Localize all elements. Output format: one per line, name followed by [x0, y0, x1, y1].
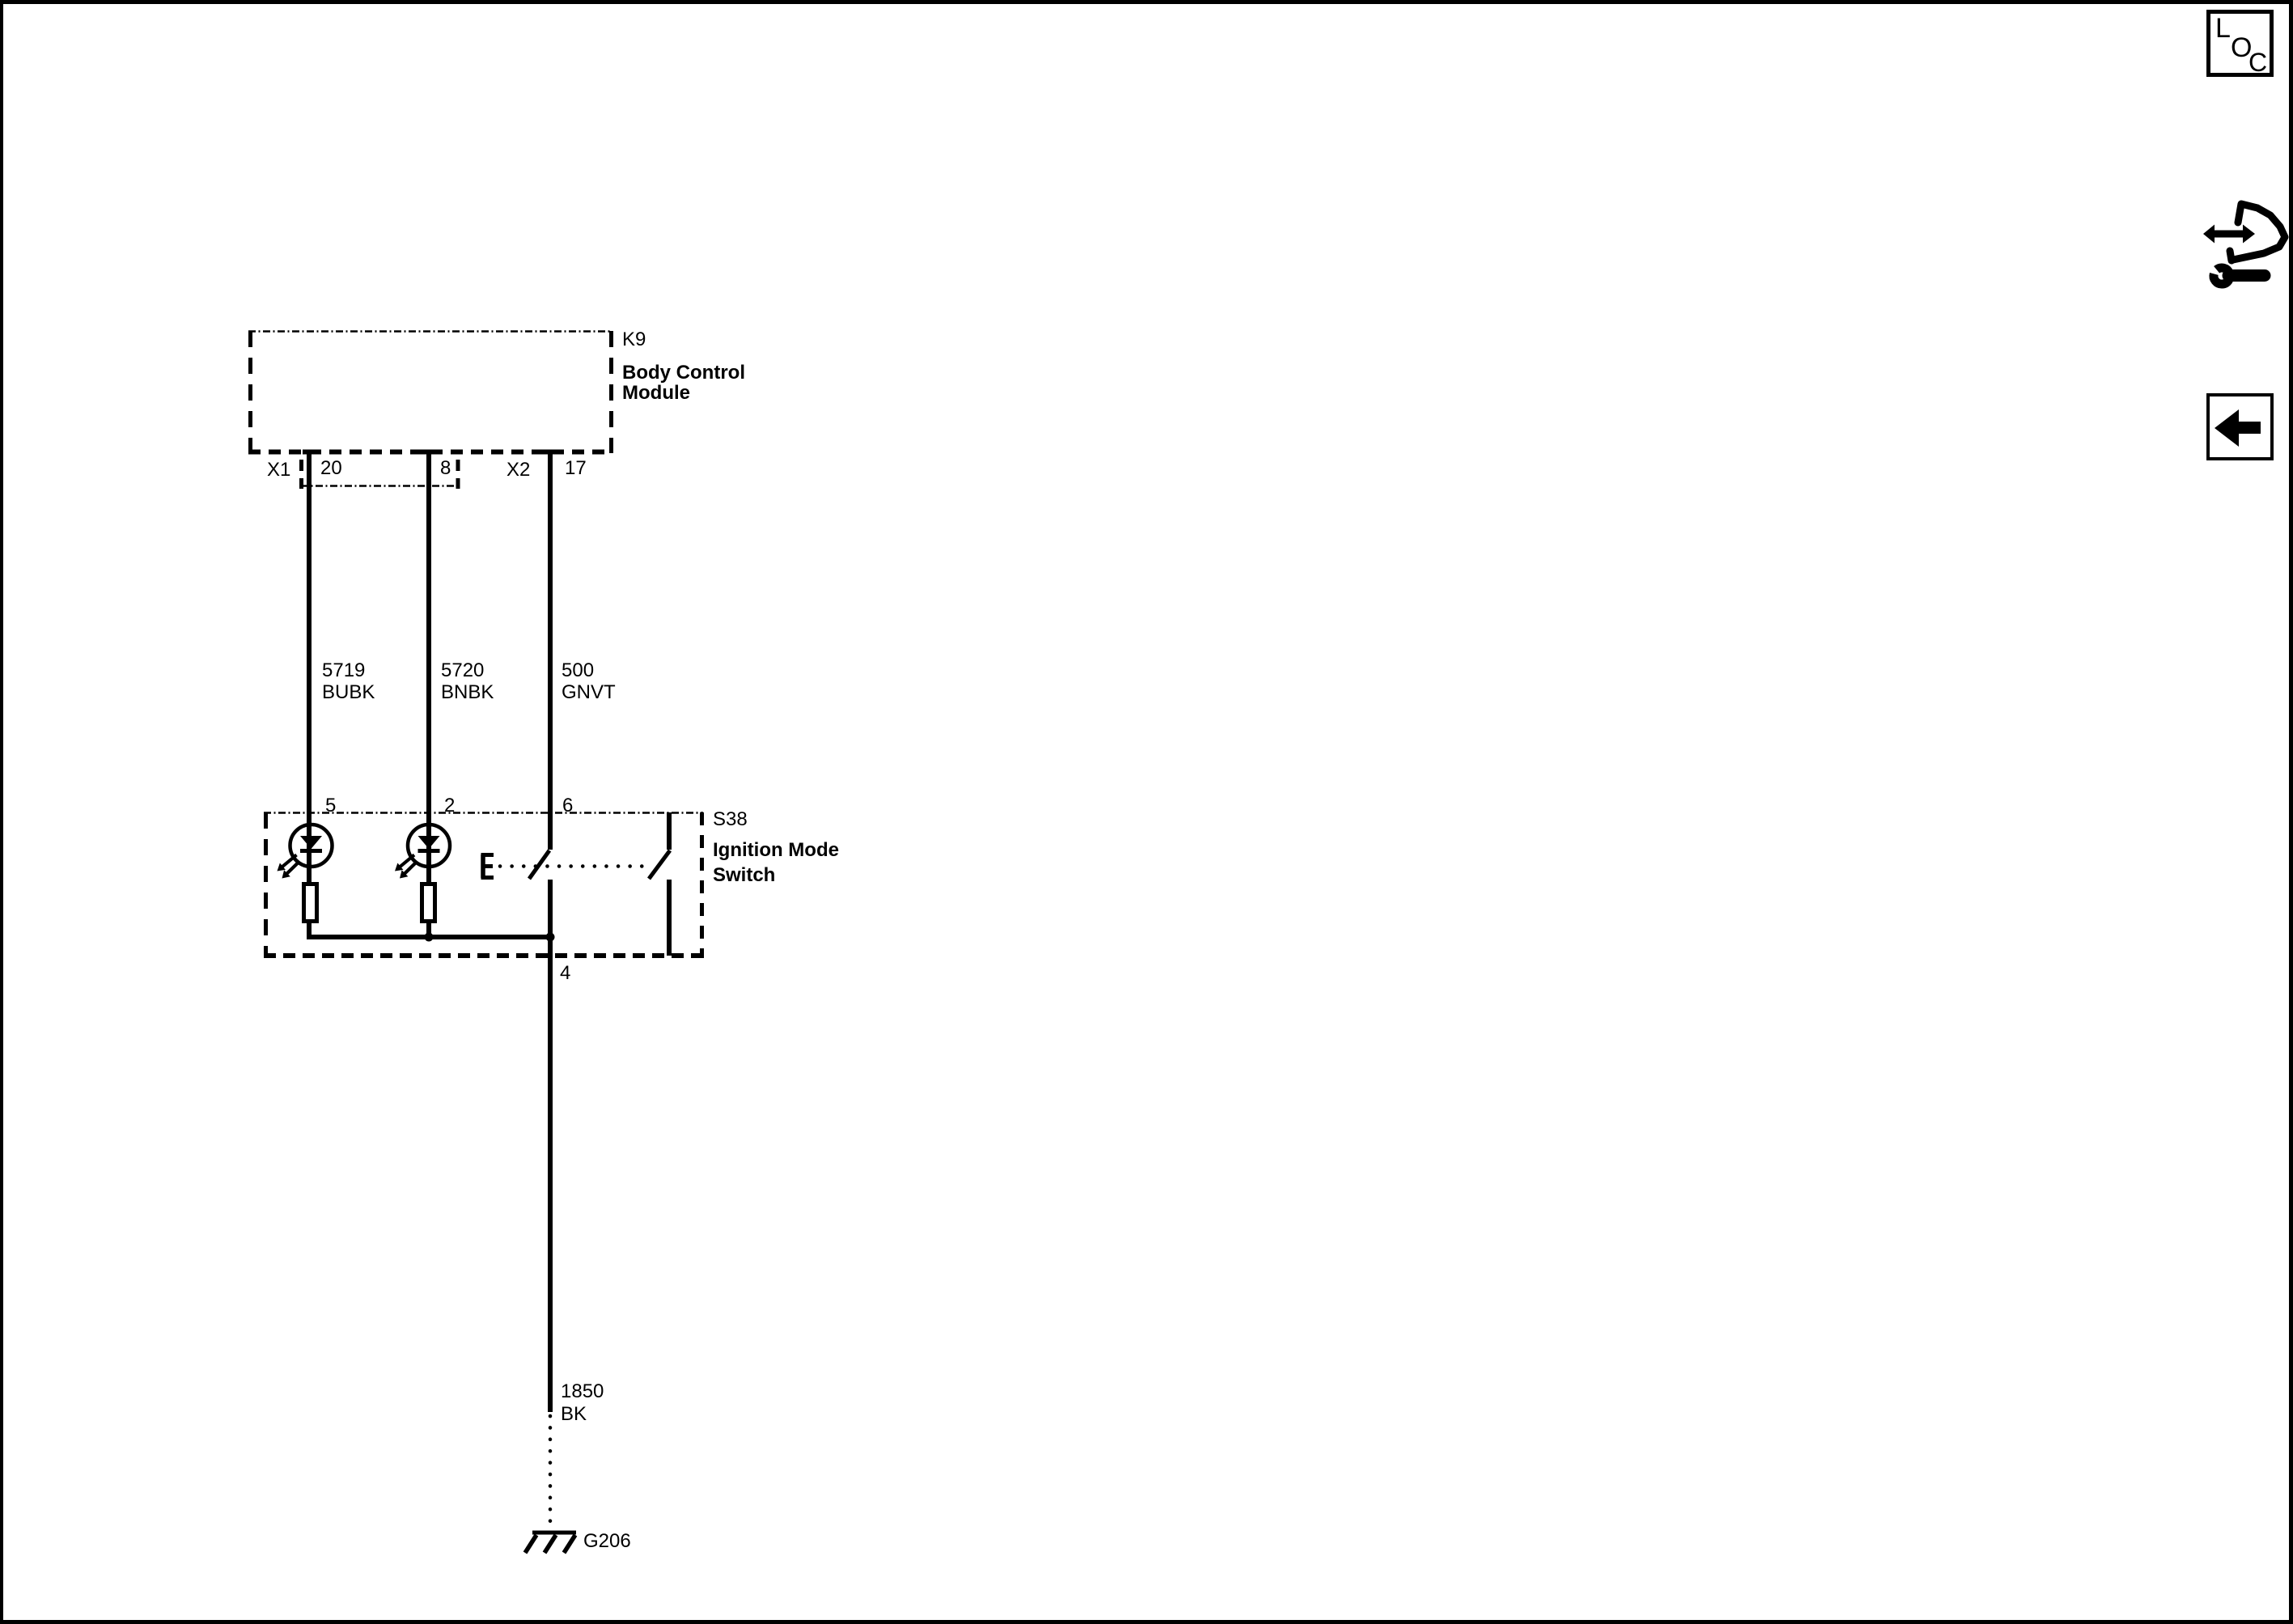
- svg-text:S38: S38: [713, 808, 748, 830]
- svg-text:4: 4: [560, 962, 570, 984]
- internal bus wire (LED cathodes to pin 4): [307, 935, 550, 939]
- wire 5720 BNBK (BCM X1-8 to S38-2): [426, 450, 431, 826]
- switch pole 2 upper wire: [667, 812, 672, 850]
- svg-text:BUBK: BUBK: [322, 681, 375, 703]
- LED 2 (indicator, S38 pin 2): [395, 825, 450, 882]
- svg-text:500: 500: [562, 659, 594, 681]
- connector X1 dashed outline: [301, 460, 458, 489]
- dotted ground lead: [549, 1416, 553, 1532]
- svg-text:BK: BK: [561, 1403, 587, 1425]
- svg-text:L: L: [2215, 13, 2231, 44]
- switch contact E label: [481, 854, 494, 878]
- wire resistor 1 to bus: [307, 923, 312, 939]
- icon LOC box (top right): [2209, 12, 2272, 78]
- svg-text:Ignition Mode: Ignition Mode: [713, 839, 839, 861]
- svg-text:K9: K9: [622, 329, 646, 350]
- svg-text:Switch: Switch: [713, 864, 775, 886]
- svg-text:GNVT: GNVT: [562, 681, 616, 703]
- svg-text:17: 17: [565, 457, 587, 479]
- svg-text:X2: X2: [506, 459, 530, 481]
- module K9 dashed box: [248, 331, 612, 453]
- switch S38 dashed box: [264, 812, 703, 958]
- LED 1 (indicator, S38 pin 5): [278, 825, 333, 882]
- icon back-arrow box (right margin): [2208, 395, 2272, 459]
- wire 1850 BK (S38-4 to ground): [548, 937, 553, 1412]
- resistor 1 (LED 1 ballast): [304, 884, 317, 922]
- resistor 2 (LED 2 ballast): [422, 884, 435, 922]
- svg-text:Body Control: Body Control: [622, 362, 745, 384]
- svg-text:1850: 1850: [561, 1380, 604, 1402]
- svg-text:G206: G206: [583, 1530, 631, 1552]
- junction node at LED2 branch: [425, 933, 434, 942]
- switch pole 1 blade (S38 pin 6 to 4): [529, 850, 549, 879]
- switch pole 1 lower contact wire: [548, 880, 553, 939]
- svg-text:BNBK: BNBK: [441, 681, 494, 703]
- junction node at pin 4 branch: [546, 933, 555, 942]
- svg-text:X1: X1: [267, 459, 290, 481]
- wire 5719 BUBK (BCM X1-20 to S38-5): [307, 450, 312, 826]
- ground symbol G206: [525, 1533, 576, 1553]
- svg-text:20: 20: [320, 457, 342, 479]
- svg-text:C: C: [2248, 48, 2267, 77]
- wire 500 GNVT (BCM X2-17 to S38-6): [548, 450, 553, 850]
- switch pole 2 lower contact wire: [667, 880, 672, 956]
- svg-text:Module: Module: [622, 382, 690, 404]
- svg-text:8: 8: [440, 457, 451, 479]
- svg-text:5720: 5720: [441, 659, 484, 681]
- icon wiring-route arrow with wrench (right margin): [2203, 204, 2285, 284]
- wire resistor 2 to bus: [426, 923, 431, 939]
- svg-text:5719: 5719: [322, 659, 365, 681]
- mechanical linkage dotted line: [500, 864, 652, 868]
- switch pole 2 blade: [649, 850, 670, 879]
